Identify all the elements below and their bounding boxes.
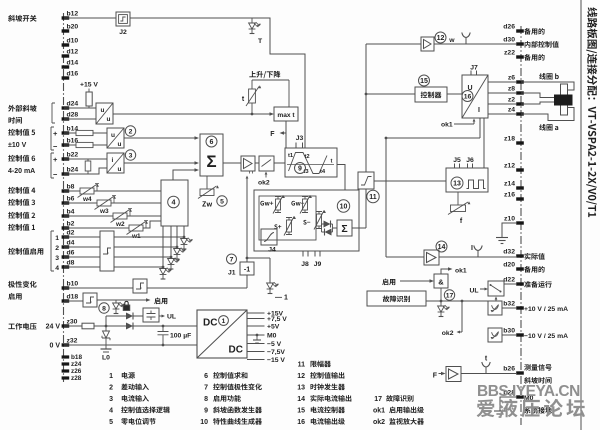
svg-text:Σ: Σ [341, 223, 347, 235]
svg-text:1: 1 [55, 235, 59, 242]
wire summator to amplifier [223, 162, 241, 164]
svg-text:b14: b14 [67, 126, 79, 133]
svg-text:t: t [331, 159, 333, 165]
svg-text:u: u [118, 141, 122, 148]
svg-text:4-20 mA: 4-20 mA [8, 168, 35, 175]
svg-text:2: 2 [129, 128, 133, 135]
buffer capacitor block UL [143, 308, 159, 322]
svg-text:ok1: ok1 [455, 268, 467, 275]
coil a label [539, 124, 558, 131]
svg-text:UL: UL [167, 314, 176, 321]
left side input labels [8, 15, 36, 22]
wire block10 sum to limiter vertical [352, 227, 366, 229]
svg-text:−15 V: −15 V [267, 357, 285, 364]
svg-text:15: 15 [297, 408, 305, 415]
AND gate ok1 [434, 274, 448, 288]
svg-text:+7,5 V: +7,5 V [267, 316, 287, 323]
pot S+ [274, 224, 281, 229]
enable label into AND gate [382, 279, 395, 286]
shunt resistor [87, 159, 89, 174]
diode to UL [126, 313, 133, 320]
svg-text:-1: -1 [244, 267, 250, 274]
svg-text:d14: d14 [67, 60, 79, 67]
svg-text:t1: t1 [288, 153, 294, 159]
svg-text:b26: b26 [503, 365, 515, 372]
svg-text:F: F [270, 131, 275, 138]
svg-text:J8: J8 [301, 261, 309, 268]
wire b4 with pot w2 [64, 215, 161, 217]
summator block 6 [200, 134, 223, 176]
svg-text:I: I [471, 245, 473, 252]
pot Gw- [291, 201, 304, 206]
svg-text:5: 5 [109, 419, 113, 426]
fault output line to ready relay [426, 298, 496, 302]
L0 ground [105, 345, 107, 349]
fault LED [440, 288, 442, 306]
series resistor [82, 323, 94, 329]
wire ramp gen output to characteristic block [337, 165, 345, 191]
svg-text:13: 13 [297, 385, 305, 392]
svg-text:L0: L0 [102, 355, 110, 362]
input group brackets [52, 103, 55, 123]
u/u converter external ramp time [96, 103, 113, 124]
svg-text:i: i [112, 157, 114, 164]
svg-text:16: 16 [464, 93, 472, 100]
svg-text:d16: d16 [67, 71, 79, 78]
polarity amplifier [241, 156, 255, 171]
svg-text:3: 3 [109, 396, 113, 403]
svg-text:DC: DC [203, 318, 217, 329]
wire to d30 with test point w [434, 43, 517, 45]
coil b label [539, 73, 559, 80]
svg-text:12: 12 [437, 35, 445, 42]
input resistors b14/b16 [64, 132, 107, 134]
svg-text:−5 V: −5 V [267, 341, 282, 348]
svg-text:max t: max t [277, 112, 295, 119]
control value select logic block 4 [161, 180, 188, 226]
enable schmitt trigger block [100, 231, 114, 271]
svg-text:z22: z22 [504, 49, 515, 56]
svg-text:z16: z16 [504, 191, 515, 198]
wire b28 M0 to ground [500, 397, 517, 411]
ok1 output label [441, 269, 451, 274]
solenoid armature [561, 84, 568, 115]
svg-text:d30: d30 [503, 36, 515, 43]
vertical title: board layout / connection allocation VT-VSPA2-1-2X/V0/T1 [586, 7, 597, 217]
lock icon [123, 305, 130, 311]
svg-text:J2: J2 [119, 29, 127, 36]
svg-text:J7: J7 [470, 65, 478, 72]
wire controller to output stage [447, 93, 462, 95]
svg-text:w2: w2 [115, 221, 125, 228]
svg-text:z18: z18 [504, 135, 515, 142]
svg-text:b30: b30 [503, 327, 515, 334]
wire block4 to summator [173, 170, 198, 180]
solenoid coil body [554, 95, 573, 106]
pot S- [303, 220, 310, 225]
svg-text:17: 17 [374, 396, 382, 403]
svg-text:10: 10 [340, 204, 348, 211]
wire to b26 with test point t [461, 373, 517, 375]
svg-text:±10 V: ±10 V [8, 142, 27, 149]
wire z10 to system ground [502, 223, 517, 238]
limiter block 11 [358, 172, 374, 189]
clock generator block 13 [446, 168, 488, 192]
suppressor zener diode [105, 326, 107, 331]
svg-text:7: 7 [204, 385, 208, 392]
svg-text:J3: J3 [296, 135, 304, 142]
svg-text:J1: J1 [228, 270, 236, 277]
right edge separator line [580, 0, 582, 430]
jumper J2 [116, 12, 130, 26]
wire to summator [124, 137, 198, 139]
svg-text:11: 11 [369, 194, 377, 201]
smoothing capacitor 100uF [158, 326, 169, 345]
svg-text:w1: w1 [131, 233, 141, 240]
svg-text:d26: d26 [503, 23, 515, 30]
svg-text:16: 16 [297, 419, 305, 426]
enable signal arrow [97, 299, 149, 301]
polarity indicator LED [247, 258, 270, 283]
svg-text:b22: b22 [67, 152, 79, 159]
current controller block 15 [415, 87, 447, 102]
branch to UL buffer [106, 316, 143, 326]
wire to summator [124, 162, 198, 164]
enable LED block 8 [115, 300, 117, 303]
wire b12 to J2 and ramp generator [64, 18, 305, 148]
measurement signal amplifier [446, 367, 461, 382]
svg-text:ok2: ok2 [442, 330, 454, 337]
svg-text:d28: d28 [67, 112, 79, 119]
svg-text:3: 3 [55, 255, 59, 262]
svg-text:d24: d24 [67, 101, 79, 108]
svg-text:−10 V / 25 mA: −10 V / 25 mA [524, 333, 568, 340]
solenoid coil wiring [521, 82, 574, 90]
enable wires d2-d8 [64, 236, 184, 238]
anti-parallel limiting diodes [322, 224, 338, 232]
svg-text:t2: t2 [305, 154, 310, 160]
svg-text:d2: d2 [67, 230, 75, 237]
svg-text:5: 5 [220, 198, 224, 205]
svg-text:d18: d18 [67, 294, 79, 301]
svg-text:2: 2 [55, 245, 59, 252]
svg-text:J6: J6 [466, 157, 474, 164]
svg-text:b8: b8 [67, 184, 75, 191]
svg-text:z26: z26 [71, 368, 82, 375]
svg-text:t4: t4 [320, 169, 326, 175]
wire d28 [64, 118, 96, 120]
svg-text:14: 14 [438, 244, 446, 251]
wire b22 [64, 158, 107, 160]
control value output amplifier block 12 [421, 37, 434, 51]
wire to amp 12 [366, 43, 421, 45]
svg-text:UL: UL [469, 288, 478, 295]
output stage to clock link [483, 118, 485, 168]
inner box [259, 196, 316, 240]
svg-text:&: & [438, 278, 444, 287]
jumper J4 curve block [261, 229, 277, 245]
svg-text:z28: z28 [71, 375, 82, 382]
wire d24 [64, 107, 96, 109]
svg-text:+: + [53, 155, 58, 164]
svg-text:d32: d32 [503, 248, 515, 255]
i/u converter block 3 [107, 153, 124, 173]
svg-text:4: 4 [55, 265, 59, 272]
svg-text:M0: M0 [267, 333, 277, 340]
svg-text:z2: z2 [508, 96, 515, 103]
wire b6 with pot w3 [64, 202, 161, 204]
svg-text:J9: J9 [314, 261, 322, 268]
svg-text:6: 6 [204, 373, 208, 380]
svg-text:z14: z14 [504, 180, 515, 187]
svg-text:z10: z10 [504, 215, 515, 222]
svg-text:8: 8 [204, 396, 208, 403]
wire -1 block to amp inverting input [246, 177, 248, 263]
fault detection box [367, 291, 426, 306]
enable select verticals into block 4 [163, 226, 184, 267]
LED T indicator [251, 18, 253, 23]
characteristic curve generator block 10 outer box [254, 190, 359, 251]
svg-text:u: u [107, 116, 111, 123]
fault detection circle 17 [444, 290, 454, 300]
svg-text:u: u [118, 166, 122, 173]
svg-text:8: 8 [102, 305, 106, 312]
svg-text:z12: z12 [504, 162, 515, 169]
svg-text:ok2: ok2 [373, 419, 385, 426]
DC/DC converter block 1 [197, 310, 247, 358]
svg-text:b10: b10 [67, 281, 79, 288]
svg-text:0 V: 0 V [49, 343, 60, 350]
right card-edge bus (dash-dot) [520, 26, 522, 425]
svg-text:z24: z24 [71, 361, 82, 368]
svg-text:Σ: Σ [206, 152, 216, 171]
svg-text:d6: d6 [67, 250, 75, 257]
svg-text:I: I [478, 107, 480, 114]
svg-text:2: 2 [109, 385, 113, 392]
wire b2 with pot w1 [64, 221, 161, 228]
wire max t to ramp generator with test point F [285, 121, 287, 148]
ground symbol [496, 237, 508, 239]
ok2 feedback label [458, 301, 462, 332]
enable indicator LEDs [181, 238, 188, 240]
svg-text:6: 6 [210, 139, 214, 146]
zero point pot Zw block 5 [206, 176, 208, 189]
svg-text:J4: J4 [268, 247, 276, 254]
series diode 24V [126, 323, 133, 330]
wire b24 [64, 168, 107, 174]
svg-text:−7,5V: −7,5V [267, 349, 285, 356]
wire z32 0V [64, 344, 197, 346]
actual current amplifier block 14 [424, 250, 439, 265]
svg-text:DC: DC [229, 345, 243, 356]
svg-text:7: 7 [230, 256, 234, 263]
ok2 monitoring switch [259, 156, 274, 171]
svg-text:1: 1 [109, 373, 113, 380]
internal ramp time pot t [249, 71, 280, 78]
svg-text:15: 15 [420, 78, 428, 85]
svg-text:d12: d12 [67, 49, 79, 56]
svg-text:+15 V: +15 V [80, 82, 98, 89]
svg-text:d20: d20 [503, 261, 515, 268]
svg-text:b12: b12 [67, 11, 79, 18]
svg-text:ok1: ok1 [441, 122, 453, 129]
svg-text:BBS.IYEYA.CN: BBS.IYEYA.CN [477, 383, 580, 400]
svg-text:z8: z8 [508, 85, 515, 92]
svg-text:w3: w3 [99, 208, 109, 215]
svg-text:11: 11 [298, 362, 306, 369]
svg-text:ok1: ok1 [373, 408, 385, 415]
svg-text:13: 13 [453, 181, 461, 188]
wire to d32 with test point I [439, 256, 517, 258]
wire feedback to amp 14 [386, 256, 424, 258]
svg-text:−: − [53, 170, 58, 179]
svg-text:4: 4 [109, 408, 113, 415]
svg-text:4: 4 [172, 198, 176, 207]
pot Gw+ [260, 201, 273, 206]
svg-text:u: u [101, 107, 105, 114]
svg-text:ok2: ok2 [258, 180, 270, 187]
watermark aiyeya forum [477, 399, 585, 417]
svg-text:d8: d8 [67, 260, 75, 267]
summator in block 10 [337, 220, 352, 236]
ok2 label with arrow [265, 173, 267, 178]
wire b10 to polarity schmitt [64, 287, 133, 289]
svg-text:d4: d4 [67, 240, 75, 247]
wire b8 with pot w4 [64, 190, 161, 192]
svg-text:b6: b6 [67, 196, 75, 203]
right-side connection labels [524, 28, 544, 35]
svg-text:w: w [448, 37, 455, 44]
ramp function generator block 9 [285, 148, 337, 177]
voltmeter b30 [488, 328, 502, 342]
svg-text:b18: b18 [71, 354, 82, 361]
M0 ground tap [256, 334, 259, 337]
svg-text:F: F [433, 373, 438, 380]
left terminals b12..z28 [62, 16, 70, 19]
svg-text:b16: b16 [67, 138, 79, 145]
u/u differential input block 2 [107, 128, 124, 148]
voltmeter b32 [488, 301, 502, 315]
wire to controller [366, 93, 415, 95]
svg-text:u: u [111, 132, 115, 139]
max t block [274, 107, 298, 121]
svg-text:z32: z32 [67, 338, 78, 345]
svg-text:b32: b32 [503, 300, 515, 307]
svg-text:z30: z30 [67, 319, 78, 326]
svg-text:+5V: +5V [267, 324, 280, 331]
svg-text:b4: b4 [67, 209, 75, 216]
svg-text:b2: b2 [67, 221, 75, 228]
polarity inverter -1 block 7 [227, 254, 237, 264]
wire relay to d22 [504, 283, 517, 285]
svg-text:3: 3 [129, 152, 133, 159]
svg-text:1: 1 [222, 318, 226, 325]
frequency pot f [457, 192, 459, 205]
svg-text:12: 12 [297, 373, 305, 380]
svg-text:−: − [53, 142, 58, 151]
svg-text:14: 14 [297, 396, 305, 403]
svg-text:100 µF: 100 µF [170, 333, 191, 340]
svg-text:b24: b24 [67, 167, 79, 174]
svg-text:9: 9 [204, 408, 208, 415]
supply output rails [247, 312, 265, 314]
svg-text:9: 9 [298, 166, 302, 173]
limiter vertical line [365, 44, 367, 228]
svg-text:+: + [53, 129, 58, 138]
left card-edge bus (dash-dot) [63, 13, 65, 382]
right terminals d26..b28 [516, 29, 524, 32]
svg-text:+10 V / 25 mA: +10 V / 25 mA [524, 306, 568, 313]
wire z30 24V [64, 325, 197, 327]
limiter tap to clock generator [374, 180, 446, 182]
svg-text:d10: d10 [67, 38, 79, 45]
svg-text:d22: d22 [503, 276, 515, 283]
solenoid output wires z6 z8 z2 z4 [488, 82, 517, 114]
svg-text:24 V: 24 V [46, 324, 61, 331]
svg-text:17: 17 [446, 292, 454, 299]
wire ramp time to max t [113, 113, 273, 115]
svg-text:w4: w4 [82, 196, 92, 203]
current feedback to actual value amp [386, 118, 480, 257]
wire d18 to enable schmitt [64, 300, 83, 302]
current output stage block 16 [462, 75, 488, 118]
svg-text:z4: z4 [508, 106, 515, 113]
svg-text:10: 10 [200, 419, 208, 426]
ready relay switch [488, 281, 504, 296]
svg-text:z6: z6 [508, 74, 515, 81]
svg-text:J5: J5 [453, 157, 461, 164]
jumper pins J8 J9 [303, 251, 320, 257]
svg-text:— 1: — 1 [275, 295, 288, 302]
svg-text:b20: b20 [67, 24, 79, 31]
